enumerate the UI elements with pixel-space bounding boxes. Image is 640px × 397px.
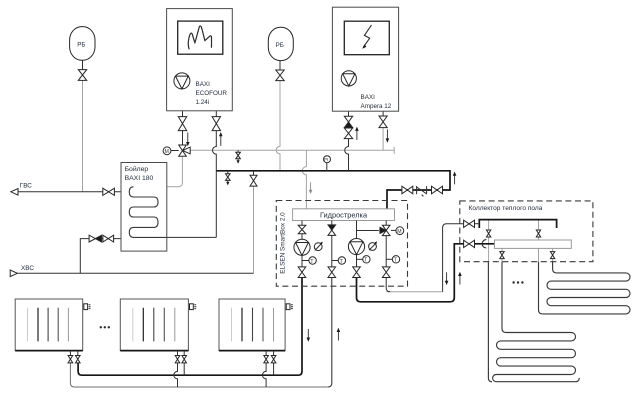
svg-text:М: М [165,149,169,155]
svg-text:ECOFOUR: ECOFOUR [196,90,228,97]
svg-text:ХВС: ХВС [21,265,34,272]
svg-text:BAXI: BAXI [196,81,211,88]
svg-text:ELSEN SmartBox 2.0: ELSEN SmartBox 2.0 [280,212,287,274]
svg-text:BAXI: BAXI [361,94,376,101]
svg-text:Бойлер: Бойлер [125,165,149,173]
svg-text:PI: PI [324,157,328,162]
svg-text:Ampera 12: Ampera 12 [361,103,392,110]
svg-text:1.24i: 1.24i [196,99,210,106]
svg-text:Гидрострелка: Гидрострелка [320,211,368,220]
svg-text:РБ: РБ [77,41,85,48]
svg-text:РБ: РБ [276,42,284,49]
svg-text:ГВС: ГВС [20,182,33,189]
svg-text:М: М [397,229,401,235]
svg-text:BAXI 180: BAXI 180 [125,175,154,182]
svg-text:Коллектор теплого пола: Коллектор теплого пола [469,205,543,212]
